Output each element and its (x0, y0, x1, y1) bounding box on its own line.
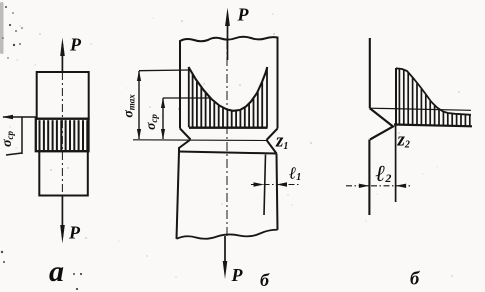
svg-text:P: P (231, 265, 244, 285)
svg-text:б: б (410, 270, 420, 290)
svg-text:б: б (260, 270, 270, 290)
svg-text:а: а (49, 255, 64, 288)
svg-text:P: P (237, 5, 250, 25)
svg-text:P: P (68, 223, 81, 243)
svg-text:P: P (69, 35, 82, 55)
